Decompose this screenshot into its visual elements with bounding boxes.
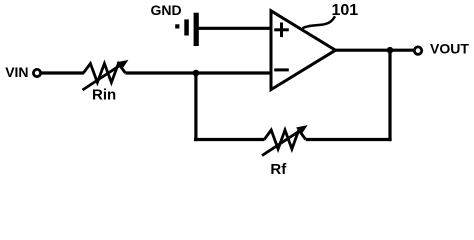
op-amp minus pin marker (274, 68, 289, 71)
svg-text:VOUT: VOUT (430, 41, 469, 57)
wire Rin to op-amp inverting input (125, 71, 271, 74)
svg-text:Rin: Rin (92, 87, 116, 104)
wire feedback bottom left (194, 138, 265, 141)
junction node A (inverting input / feedback) (193, 70, 200, 77)
wire feedback up to junction B (388, 50, 391, 141)
ground symbol (175, 13, 199, 46)
svg-text:VIN: VIN (5, 64, 28, 80)
svg-text:101: 101 (332, 2, 359, 19)
leader line from 101 to op-amp (303, 16, 336, 28)
resistor Rin (variable) (83, 60, 129, 90)
op-amp plus pin marker (274, 23, 289, 38)
wire feedback bottom right (306, 138, 392, 141)
wire junction A down to feedback (194, 73, 197, 141)
node VOUT output terminal (414, 47, 421, 54)
junction node B (output / feedback) (387, 47, 394, 54)
resistor Rf (variable) (262, 125, 308, 156)
op-amp U1 (271, 11, 336, 90)
node VIN input terminal (33, 69, 40, 76)
wire ground to op-amp non-inverting input (196, 27, 272, 30)
svg-text:GND: GND (151, 2, 182, 18)
wire VIN to Rin (42, 71, 85, 74)
wire op-amp output to VOUT (334, 49, 414, 52)
svg-text:Rf: Rf (270, 161, 287, 178)
